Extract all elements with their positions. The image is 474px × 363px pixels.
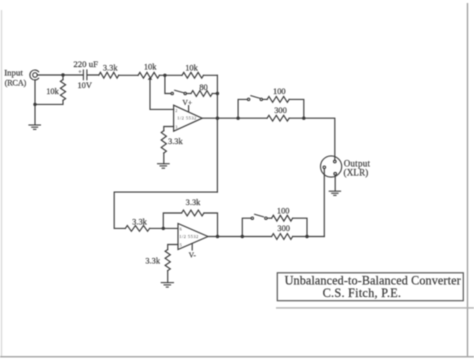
wire: op-amp U1A output row [202,117,238,119]
resistor R1 10k (input shunt) [62,75,64,80]
wire: switch branch from pot junction [165,75,171,93]
wire: XLR pin 1 to ground [334,175,336,191]
potentiometer VR1 10k [138,72,159,78]
resistor R2 3.3k (series input) [99,72,119,78]
svg-text:3.3k: 3.3k [145,257,160,266]
wire: 100 ohm down to junction [289,99,304,118]
switch S3 [251,214,267,219]
svg-text:C.S. Fitch, P.E.: C.S. Fitch, P.E. [323,286,402,300]
wire: XLR pin 3 column down [323,169,325,237]
wire: switch to 100 ohm [267,217,272,219]
node: junction right of top combo [302,117,305,120]
svg-text:5: 5 [180,243,182,248]
wire: lower feedback up/over [163,213,181,228]
connector J2 XLR output [321,156,342,177]
power V- [191,244,193,250]
svg-text:V+: V+ [182,98,192,107]
resistor R5 3.3k (to ground) [161,131,166,153]
svg-text:(RCA): (RCA) [5,79,27,88]
node: junction left of top combo [236,117,239,120]
svg-text:100: 100 [273,87,286,96]
wire: top combo branch up [238,99,247,118]
svg-text:Input: Input [4,68,23,78]
op-amp U1A (1/2 5532) [174,105,203,131]
svg-text:1/2 5532: 1/2 5532 [179,234,198,239]
switch S1 [171,90,186,95]
wire: feedback down to output [204,213,218,237]
resistor R11 100 [272,215,293,221]
capacitor C1 220uF [83,69,87,80]
node: junction lower input/feedback [162,227,165,230]
wire: top combo to XLR pin 2 [304,118,335,160]
wire: RCA shell to ground [34,80,36,125]
node: junction input/10k [61,73,64,76]
node: junction right of lower combo [305,235,308,238]
svg-text:1/2 5532: 1/2 5532 [177,116,196,121]
svg-text:3.3k: 3.3k [103,63,118,72]
resistor R7 300 [267,115,289,121]
wire: page left border [1,10,3,356]
node: junction shell/10k [33,103,36,106]
switch S2 [247,96,262,101]
wire: to lower op-amp pin 6 [150,227,178,229]
resistor R4 80 [191,91,212,97]
svg-text:(XLR): (XLR) [344,167,369,177]
svg-text:80: 80 [199,83,207,92]
wire: 100 ohm down to junction [293,218,307,236]
resistor R8 3.3k (lower input) [125,226,149,232]
svg-text:10V: 10V [77,81,91,90]
wire: link from column to lower stage [114,192,217,228]
node: junction left of lower combo [241,235,244,238]
wire: main input row [37,74,217,76]
wire: switch to 80 ohm [186,93,191,95]
wire: rule under title box [276,307,474,309]
wire: 80 ohm to column [212,93,217,95]
svg-text:6: 6 [180,227,182,232]
label: + polarity [79,70,82,73]
node: junction feedback/output [216,235,219,238]
svg-text:V-: V- [189,250,197,259]
node: junction output/column [216,117,219,120]
connector J1 RCA jack [30,70,39,80]
svg-text:3: 3 [175,124,177,129]
op-amp U1B (1/2 5532) [178,224,208,250]
resistor R10 3.3k (to ground) [165,250,170,271]
svg-text:3.3k: 3.3k [132,217,147,226]
resistor R12 300 [272,234,293,240]
wire: switch to 100 ohm [263,98,268,100]
ground: op-amp U1B ground [161,283,174,288]
wire: op-amp U1B pin 5 stub [168,245,178,250]
svg-text:220 uF: 220 uF [73,59,98,69]
wire: lower combo to XLR pin 3 column [307,236,324,238]
svg-text:3.3k: 3.3k [168,137,183,146]
wire: op-amp U1B output row [208,236,242,238]
resistor R6 100 [267,97,289,103]
node: junction 80/column [216,92,219,95]
svg-text:100: 100 [277,206,290,215]
title box [277,273,463,301]
ground: input ground [28,125,41,129]
svg-text:10k: 10k [46,87,59,96]
svg-text:2: 2 [175,108,177,113]
wire: page right border [467,3,469,357]
svg-text:10k: 10k [185,63,198,72]
resistor R3 10k (feedback) [182,72,203,78]
svg-text:10k: 10k [144,62,157,71]
svg-text:300: 300 [274,106,287,115]
svg-text:300: 300 [277,224,290,233]
node: junction pot/feedback [163,74,166,77]
wire: page bottom rule [0,356,474,358]
ground: XLR ground [329,191,341,195]
wire: pot wiper to op-amp pin 2 [150,80,174,110]
svg-text:3.3k: 3.3k [186,198,201,207]
ground: op-amp U1A ground [157,164,170,169]
power V+ [188,106,190,112]
wire: feedback column [216,75,218,192]
wire: lower combo branch up [242,218,251,236]
wire: op-amp pin 3 stub [164,127,174,131]
resistor R9 3.3k (lower feedback) [182,210,204,216]
